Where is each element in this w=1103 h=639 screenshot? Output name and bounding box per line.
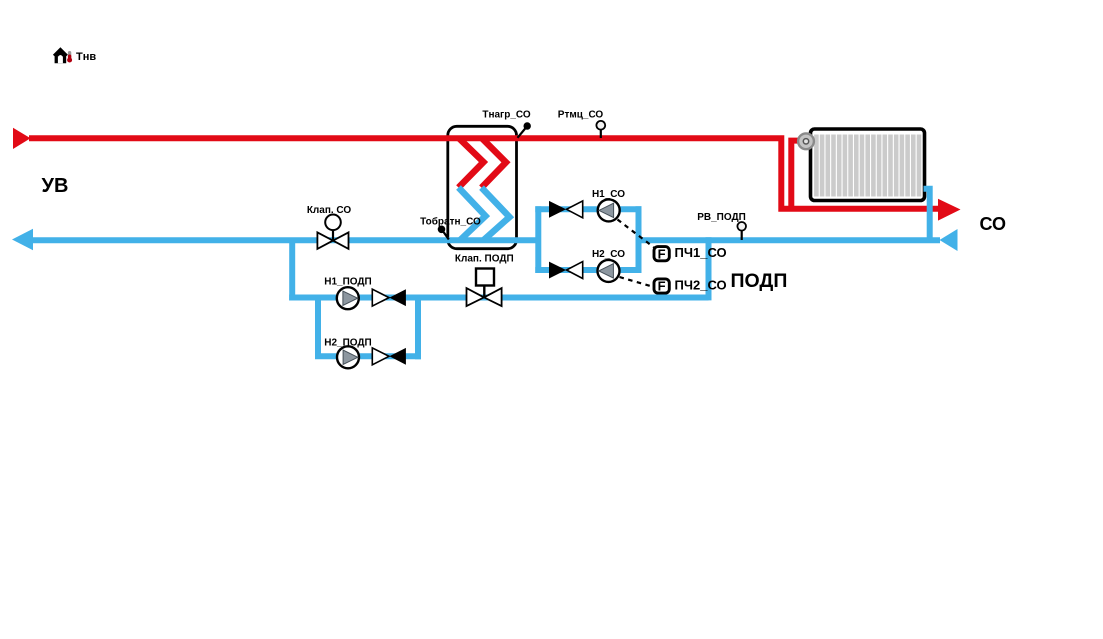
label ПЧ1_СО	[675, 245, 727, 260]
label Ртмц_СО	[558, 110, 604, 121]
arrow: СО return inlet	[940, 229, 958, 251]
wire: radiator supply branch	[791, 141, 799, 211]
wire: makeup tee drop from Клап. СО line	[289, 240, 295, 300]
label Н2_ПОДП	[324, 337, 372, 348]
pump Н1_ПОДП	[337, 287, 359, 309]
label Клап. СО	[307, 205, 352, 216]
frequency drive ПЧ1_СО	[654, 246, 669, 261]
sensor Тобратн_СО	[438, 226, 449, 240]
svg-text:УВ: УВ	[42, 175, 69, 197]
valve Клап. ПОДП actuator	[476, 269, 494, 298]
sensor Тнагр_СО	[518, 122, 531, 138]
heat exchanger cold-side zigzag 2	[482, 188, 510, 241]
svg-text:Тнв: Тнв	[76, 51, 96, 63]
arrow: УВ return outlet	[12, 229, 33, 251]
outdoor thermometer icon	[67, 51, 72, 63]
outdoor temperature house icon	[53, 47, 68, 63]
svg-text:Ртмц_СО: Ртмц_СО	[558, 110, 604, 121]
wire: ПОДП header run	[289, 295, 708, 301]
wire: Н2_ПОДП tee left drop	[315, 298, 321, 357]
pump Н1_СО	[598, 199, 620, 221]
check valve Н2_ПОДП branch	[372, 348, 406, 365]
heat exchanger hot-side zigzag 2	[482, 138, 507, 187]
svg-text:Н1_ПОДП: Н1_ПОДП	[324, 277, 372, 288]
svg-text:Тнагр_СО: Тнагр_СО	[482, 110, 531, 121]
pump Н2_СО	[598, 260, 620, 282]
valve Клап. ПОДП bowtie	[467, 288, 502, 306]
pump Н2_ПОДП	[337, 346, 359, 368]
svg-text:F: F	[658, 279, 666, 294]
frequency drive ПЧ2_СО	[654, 279, 669, 294]
wire: Н2_СО branch	[535, 267, 641, 273]
wire: pump group right header	[636, 206, 642, 273]
wire: СО return main right segment	[639, 237, 941, 243]
label Н2_СО	[592, 249, 625, 260]
svg-text:ПОДП: ПОДП	[731, 270, 788, 292]
label Клап. ПОДП	[455, 254, 514, 265]
arrow: УВ supply inlet	[13, 128, 31, 149]
label Тнв	[76, 51, 96, 63]
wire: Н2_ПОДП tee right riser	[415, 295, 421, 360]
arrow: СО supply outlet	[938, 199, 961, 221]
label УВ	[42, 175, 69, 197]
svg-text:РВ_ПОДП: РВ_ПОДП	[697, 212, 746, 223]
control link Н2_СО to ПЧ2_СО	[620, 277, 653, 287]
wire: pump group left header	[535, 206, 541, 273]
wire: red supply main УВ to СО	[29, 138, 939, 208]
svg-text:Клап. СО: Клап. СО	[307, 205, 352, 216]
label ПОДП	[731, 270, 788, 292]
heat exchanger body	[448, 126, 517, 248]
radiator inlet valve	[798, 133, 814, 149]
svg-text:СО: СО	[980, 214, 1007, 234]
check valve Н2_СО branch	[549, 262, 583, 279]
check valve Н1_ПОДП branch	[372, 289, 406, 306]
label РВ_ПОДП	[697, 212, 746, 223]
heat exchanger hot-side zigzag 1	[459, 138, 484, 187]
label Тобратн_СО	[420, 215, 481, 227]
sensor РВ_ПОДП	[737, 222, 746, 240]
label Н1_СО	[592, 189, 625, 200]
heat exchanger cold-side zigzag 1	[459, 188, 486, 241]
label ПЧ2_СО	[675, 278, 727, 293]
svg-text:Н2_СО: Н2_СО	[592, 249, 625, 260]
valve Клап. СО actuator	[325, 215, 341, 241]
svg-text:F: F	[658, 246, 666, 261]
sensor Ртмц_СО	[596, 121, 605, 138]
svg-text:ПЧ2_СО: ПЧ2_СО	[675, 278, 727, 293]
wire: Н2_ПОДП branch	[315, 353, 421, 359]
svg-text:ПЧ1_СО: ПЧ1_СО	[675, 245, 727, 260]
svg-text:Н2_ПОДП: Н2_ПОДП	[324, 337, 372, 348]
svg-text:Тобратн_СО: Тобратн_СО	[420, 215, 481, 227]
label Тнагр_СО	[482, 110, 531, 121]
radiator body	[811, 129, 925, 201]
check valve Н1_СО branch	[549, 201, 583, 218]
control link Н1_СО to ПЧ1_СО	[618, 220, 655, 248]
wire: radiator return drop	[924, 189, 930, 243]
valve Клап. СО bowtie	[317, 232, 348, 249]
svg-text:Н1_СО: Н1_СО	[592, 189, 625, 200]
label СО	[980, 214, 1007, 234]
svg-text:Клап. ПОДП: Клап. ПОДП	[455, 254, 514, 265]
wire: ПОДП riser to СО return	[706, 237, 712, 300]
wire: Н1_СО branch	[535, 206, 641, 212]
wire: СО return main left segment	[30, 237, 538, 243]
label Н1_ПОДП	[324, 277, 372, 288]
